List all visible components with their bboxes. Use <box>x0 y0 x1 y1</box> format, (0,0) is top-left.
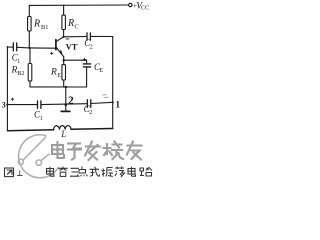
三 <box>70 168 79 176</box>
svg-text:B2: B2 <box>17 70 24 77</box>
wire ground row <box>30 86 87 88</box>
svg-text:1: 1 <box>40 116 43 122</box>
capacitor Cb top-left coupling <box>7 43 29 51</box>
caption 电容三点式振荡电路 (simulated glyphs) <box>47 167 153 178</box>
label RC <box>67 18 79 31</box>
wire tank mid center <box>41 103 87 106</box>
友 <box>127 142 142 160</box>
label C2 tank <box>84 104 93 116</box>
svg-text:R: R <box>50 67 57 77</box>
resistor RB2 <box>28 48 32 87</box>
wire tank mid left <box>7 104 37 106</box>
node base junction <box>28 47 30 49</box>
node emitter junction <box>63 59 65 61</box>
式 <box>90 167 100 177</box>
terminal +VCC circle <box>129 3 132 6</box>
svg-text:VT: VT <box>66 41 78 51</box>
node ground row junction <box>65 86 67 88</box>
label C2 top <box>84 38 93 50</box>
容 <box>58 167 68 177</box>
wire base <box>30 47 56 49</box>
inductor L <box>54 126 71 130</box>
烧 <box>104 142 124 160</box>
node collector <box>63 36 65 38</box>
capacitor C2 tank <box>87 100 90 108</box>
label RB1 <box>33 18 48 31</box>
svg-text:3: 3 <box>2 101 6 110</box>
watermark logo circle <box>18 135 59 178</box>
振 <box>102 168 114 177</box>
svg-text:R: R <box>33 18 40 29</box>
polarity minus at collector <box>66 38 69 40</box>
label RE <box>50 67 61 79</box>
svg-text:B1: B1 <box>41 24 48 31</box>
polarity plus at node 3 <box>11 98 14 101</box>
capacitor C2 top <box>87 33 113 40</box>
wire junction to node2 <box>65 87 67 105</box>
电 <box>47 167 55 176</box>
svg-text:1: 1 <box>17 59 20 65</box>
svg-text:E: E <box>57 72 61 79</box>
wire collector to C2 <box>64 36 87 38</box>
svg-text:E: E <box>100 68 104 74</box>
polarity plus at base <box>50 52 53 55</box>
svg-text:2: 2 <box>89 110 92 116</box>
wire bottom rail right <box>71 128 113 131</box>
路 <box>140 168 152 177</box>
svg-text:2: 2 <box>68 95 74 107</box>
svg-text:R: R <box>67 18 74 29</box>
watermark remnant dashes near node 1 <box>103 95 109 98</box>
svg-text:C: C <box>75 24 79 31</box>
子 <box>68 144 81 160</box>
capacitor CE electrolytic <box>83 60 90 87</box>
node 3 <box>6 104 8 106</box>
wire top VCC rail <box>29 4 128 6</box>
wire right rail <box>112 37 114 129</box>
wire tank mid right <box>91 102 113 103</box>
svg-text:CC: CC <box>141 5 149 12</box>
node 2 <box>65 103 68 106</box>
resistor RB1 <box>28 5 32 48</box>
caption figure number remnant <box>17 171 23 176</box>
点 <box>77 167 87 177</box>
label C1 tank <box>34 110 43 122</box>
label RB2 <box>11 66 25 78</box>
resistor RC <box>62 5 66 37</box>
label CE <box>94 62 104 74</box>
发 <box>85 142 100 161</box>
ground <box>61 105 70 112</box>
capacitor C1 tank <box>38 101 41 109</box>
transistor VT <box>56 37 64 56</box>
wire bottom rail left <box>7 130 53 131</box>
wire emitter <box>64 56 87 60</box>
label Cb <box>12 53 20 65</box>
svg-text:1: 1 <box>115 101 120 111</box>
label +VCC <box>133 1 149 12</box>
wire left rail <box>6 46 8 130</box>
svg-text:L: L <box>60 129 66 139</box>
电 <box>52 142 64 158</box>
node 1 <box>112 101 114 103</box>
polarity plus at CE <box>83 58 86 61</box>
caption 图 (simulated glyph) <box>5 168 14 177</box>
svg-text:2: 2 <box>90 44 93 50</box>
荡 <box>115 167 125 178</box>
watermark text 电子发烧友 (simulated glyphs) <box>52 142 142 161</box>
resistor RE <box>62 60 66 87</box>
电 <box>128 167 136 176</box>
